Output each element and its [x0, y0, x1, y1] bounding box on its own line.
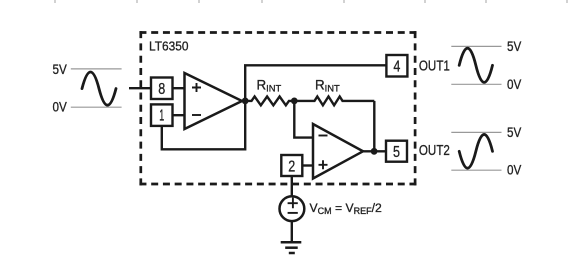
wire VCM source to ground — [291, 221, 293, 242]
ground — [281, 242, 302, 253]
OUT2 sine wave — [459, 134, 492, 168]
resistor RINT 2 — [294, 97, 374, 106]
voltage source VCM circle — [280, 196, 305, 221]
wire junction down to A2 - input — [294, 101, 313, 138]
svg-text:5V: 5V — [53, 62, 67, 77]
A2 - symbol — [319, 135, 328, 137]
node A1 output — [242, 98, 249, 105]
svg-text:OUT2: OUT2 — [419, 142, 450, 159]
svg-text:OUT1: OUT1 — [419, 57, 450, 74]
wire A1 output up to top rail and to pin 4 — [245, 65, 386, 101]
pin 8 box — [151, 78, 173, 100]
svg-text:8: 8 — [158, 81, 165, 98]
A1 - symbol — [192, 114, 201, 116]
wire pin 2 down to VCM source — [291, 176, 293, 197]
pin 1 box — [151, 104, 173, 126]
pin 2 box — [281, 155, 302, 176]
svg-text:RINT: RINT — [315, 78, 340, 94]
OUT2 waveform 0V line — [451, 169, 501, 171]
node junction between RINT resistors — [291, 98, 298, 105]
svg-text:1: 1 — [159, 108, 164, 125]
svg-text:0V: 0V — [507, 77, 521, 92]
OUT1 waveform 0V line — [451, 83, 501, 85]
OUT1 waveform 5V line — [451, 45, 501, 47]
input waveform 0V line — [71, 106, 122, 108]
OUT2 waveform 5V line — [451, 131, 501, 133]
wire pin 8 to A1 + input — [173, 87, 185, 89]
op-amp A2 — [313, 124, 363, 179]
op-amp A1 — [185, 73, 243, 129]
svg-text:LT6350: LT6350 — [149, 39, 189, 54]
svg-text:4: 4 — [393, 58, 400, 75]
pin 5 box — [386, 141, 407, 162]
VCM source + symbol — [288, 198, 298, 209]
svg-text:5V: 5V — [507, 125, 521, 140]
A1 + symbol — [192, 83, 201, 92]
svg-text:2: 2 — [288, 158, 295, 175]
A2 + symbol — [319, 160, 328, 169]
svg-text:0V: 0V — [507, 163, 521, 178]
input waveform 5V line — [71, 68, 122, 70]
svg-text:0V: 0V — [53, 100, 67, 115]
IC boundary dashed box LT6350 — [139, 31, 416, 185]
svg-text:5: 5 — [393, 144, 400, 161]
svg-text:5V: 5V — [507, 39, 521, 54]
node A2 output — [371, 148, 378, 155]
resistor RINT 1 — [245, 97, 294, 106]
wire A2 output to pin 5 — [363, 150, 386, 152]
wire input to pin 8 — [129, 87, 151, 89]
wire pin 2 to A2 + input — [302, 164, 313, 166]
wire pin 1 to A1 - input — [173, 114, 185, 116]
svg-text:VCM = VREF/2: VCM = VREF/2 — [310, 201, 383, 216]
VCM source - symbol — [288, 212, 298, 214]
pin 4 box — [386, 55, 407, 77]
wire RINT2 feedback down to A2 output — [373, 101, 375, 151]
input sine wave — [82, 72, 116, 105]
feedback wire A1 output to pin 1 — [162, 101, 245, 149]
svg-text:RINT: RINT — [257, 78, 282, 94]
cropped text remnants top edge — [54, 0, 568, 3]
OUT1 sine wave — [459, 48, 492, 82]
